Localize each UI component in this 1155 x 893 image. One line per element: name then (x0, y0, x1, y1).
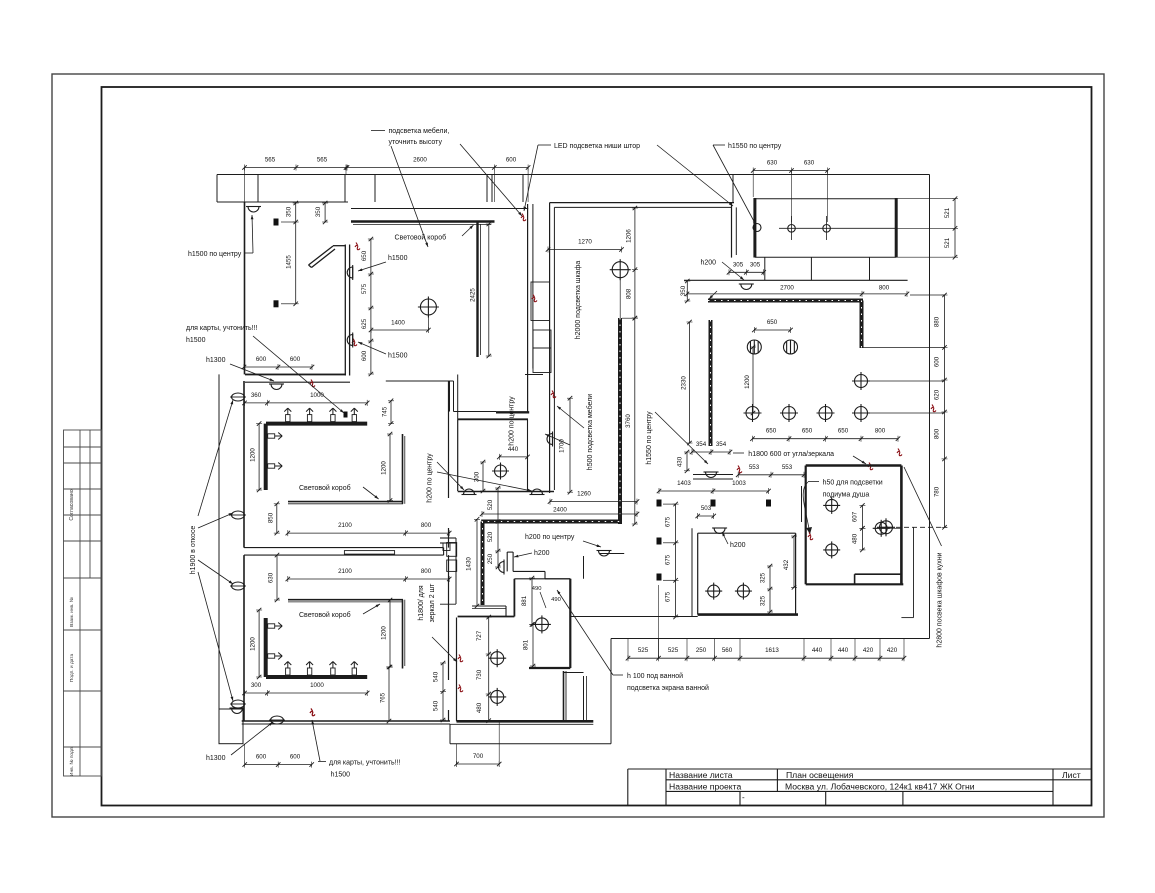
svg-text:1700: 1700 (559, 439, 566, 453)
sheet inner frame (102, 87, 1092, 806)
svg-text:Согласовано: Согласовано (69, 489, 75, 520)
h200 step structure (506, 552, 508, 571)
wardrobe wall double (527, 204, 529, 412)
svg-text:675: 675 (665, 554, 672, 565)
svg-text:2330: 2330 (681, 376, 688, 390)
red mark hall top (551, 391, 556, 398)
wall shower bottom (806, 583, 904, 585)
plan bottom boundary mid (450, 743, 611, 745)
fixture box light2 (823, 225, 831, 233)
dim 305 305 (729, 271, 764, 273)
box top edge (755, 198, 896, 200)
wall bedroom2 right (448, 555, 450, 680)
dim chain living inner (370, 239, 372, 374)
svg-text:2425: 2425 (470, 288, 477, 302)
LED strip end arrow (709, 291, 717, 299)
fixture wc half top (712, 528, 727, 534)
dim 1700 hall (569, 398, 571, 492)
svg-text:650: 650 (802, 428, 813, 435)
svg-text:650: 650 (838, 428, 849, 435)
sliding door (344, 551, 394, 555)
leader h50 (803, 482, 810, 534)
wall corridor v456 (455, 538, 457, 604)
fixture guest bath (492, 463, 509, 480)
wall shower top (806, 464, 902, 467)
svg-text:1200: 1200 (744, 375, 751, 389)
svg-text:800: 800 (421, 522, 432, 529)
svg-text:745: 745 (382, 406, 389, 417)
svg-text:2400: 2400 (553, 507, 567, 514)
fixture bath3 (533, 615, 551, 633)
dim 630 630 (753, 170, 827, 172)
svg-text:2700: 2700 (780, 285, 794, 292)
svg-text:650: 650 (767, 319, 778, 326)
svg-text:h1550 по центру: h1550 по центру (646, 411, 653, 465)
wall bedroom1 right (448, 381, 450, 498)
fixture living half wall2 (347, 333, 352, 348)
dim 650 pair (754, 329, 790, 331)
wardrobe end cap (496, 411, 529, 413)
svg-text:1003: 1003 (732, 480, 746, 487)
svg-text:h1550 по центру: h1550 по центру (728, 143, 782, 150)
svg-text:1613: 1613 (765, 647, 779, 654)
leader h1900 4 (198, 572, 233, 701)
curtain side arrows bed1 (268, 433, 283, 440)
fixture kitchen half (739, 284, 754, 290)
fixture half step (230, 708, 245, 714)
dim 801 bath (532, 624, 534, 666)
dim 1430 hall (476, 519, 478, 606)
spot squares row (657, 500, 662, 507)
svg-text:h50 для подсветки: h50 для подсветки (823, 480, 883, 487)
svg-text:подиума душа: подиума душа (823, 492, 870, 499)
leader зеркал (432, 637, 457, 662)
wall living left (244, 202, 246, 374)
svg-text:h1800/ для: h1800/ для (418, 585, 425, 621)
svg-text:250: 250 (696, 647, 707, 654)
svg-text:553: 553 (782, 464, 793, 471)
red mark bath mirror1 (458, 655, 463, 662)
wall guest bath bottom (458, 491, 554, 493)
svg-text:h1500: h1500 (388, 353, 408, 360)
fixture oval left3 (232, 582, 245, 590)
bathtub screen box (569, 579, 571, 668)
red mark bed1 top (310, 380, 315, 387)
fixture guest half1 (462, 489, 477, 495)
dim chain 521 521 (954, 199, 956, 258)
dim chain bath left (488, 617, 490, 721)
svg-text:1000: 1000 (310, 682, 324, 689)
fixture bath2 (488, 688, 506, 706)
svg-text:650: 650 (766, 428, 777, 435)
dim 1200 bed2 right (389, 600, 391, 667)
step box bottom-left (219, 709, 243, 744)
svg-text:уточнить высоту: уточнить высоту (389, 139, 443, 146)
dim 700 bottom (457, 763, 500, 765)
fixture hall half 2 (704, 472, 719, 478)
svg-text:675: 675 (665, 516, 672, 527)
svg-text:600: 600 (361, 350, 368, 361)
leader h1900 3 (198, 560, 233, 584)
wall kitchen step right (913, 527, 915, 618)
svg-text:1403: 1403 (677, 480, 691, 487)
dim 1200 bed1 left (258, 424, 260, 490)
plan left boundary (218, 374, 220, 709)
dim 1400 (371, 329, 428, 331)
svg-text:1260: 1260 (577, 491, 591, 498)
curtain track bed1 horizontal (266, 422, 367, 426)
wall above tub box (583, 556, 585, 579)
leader подсветка мебели 1 (391, 146, 428, 247)
dim 2330 (689, 322, 691, 443)
dim 503 wc (698, 515, 714, 517)
curtain side arrows bed2 (268, 623, 283, 630)
curtain arrows bed1 (284, 408, 291, 422)
wall guest bath left (457, 419, 459, 491)
svg-text:630: 630 (268, 572, 275, 583)
fixture cross lines (779, 227, 896, 229)
wall bath niche right pair (583, 676, 585, 721)
svg-text:801: 801 (523, 639, 530, 650)
dim 1206-808 vert (634, 208, 636, 318)
dim 360 1000 bed1 (245, 402, 368, 404)
leader h200 rot 1 (437, 462, 464, 490)
svg-text:440: 440 (812, 647, 823, 654)
svg-text:Подп. и дата: Подп. и дата (69, 654, 75, 683)
svg-text:h1500: h1500 (186, 337, 206, 344)
dim row risers (658, 639, 660, 659)
dim 2600 600 (346, 167, 528, 169)
sheet outer border (52, 74, 1104, 817)
svg-text:1270: 1270 (578, 239, 592, 246)
dim 565 565 (245, 167, 348, 169)
leader h1500 left (252, 215, 253, 253)
wall corridor double538 (440, 537, 456, 539)
svg-text:1206: 1206 (626, 229, 633, 243)
svg-text:354: 354 (696, 441, 707, 448)
leader LED left (524, 145, 538, 211)
svg-text:1000: 1000 (310, 392, 324, 399)
curtain track bed2 vertical (264, 618, 268, 677)
svg-text:350: 350 (286, 206, 293, 217)
dim 2100 800 bed2 (288, 578, 449, 580)
svg-text:325: 325 (760, 595, 767, 606)
svg-text:520: 520 (487, 531, 494, 542)
fixture wc2 (735, 583, 752, 600)
fixture kitchen wall (877, 518, 895, 536)
svg-text:h200 по центру: h200 по центру (525, 534, 575, 541)
svg-text:800: 800 (879, 285, 890, 292)
leader h500 (557, 406, 584, 428)
wall shower right (900, 466, 903, 585)
fixture hall half mid (547, 432, 553, 447)
svg-text:600: 600 (290, 356, 301, 363)
leader h2800 (904, 467, 942, 546)
svg-text:Световой короб: Световой короб (299, 484, 351, 492)
svg-text:Лист: Лист (1062, 770, 1081, 780)
svg-text:490: 490 (532, 586, 542, 592)
dim 300 guest (482, 462, 484, 491)
dim 675 column (675, 504, 677, 617)
spot square2 (274, 300, 279, 307)
plan step boundary (610, 639, 612, 744)
svg-text:подсветка мебели,: подсветка мебели, (389, 127, 450, 135)
svg-text:600: 600 (290, 754, 301, 761)
wall partition center thick (344, 245, 346, 376)
svg-text:305: 305 (750, 262, 761, 269)
curtain track bed1 vertical (264, 424, 268, 490)
leader h1550 top (713, 145, 756, 225)
svg-text:h200 по центру: h200 по центру (427, 453, 434, 503)
wall wc bottom thick (698, 613, 798, 616)
wall corridor bottom (571, 616, 698, 618)
svg-text:325: 325 (760, 572, 767, 583)
svg-text:350: 350 (680, 285, 687, 296)
dim 440 guest (499, 456, 527, 458)
leader LED right (657, 145, 733, 206)
leader h200 mid (583, 541, 601, 547)
svg-text:2100: 2100 (338, 568, 352, 575)
svg-text:1200: 1200 (250, 637, 257, 651)
box left wall thick (753, 198, 756, 258)
svg-text:-: - (742, 793, 745, 802)
leader h200 wc (722, 532, 728, 544)
wall corridor left of wc (691, 528, 693, 617)
svg-text:560: 560 (722, 647, 733, 654)
red mark wardrobe (532, 295, 537, 302)
svg-text:575: 575 (361, 283, 368, 294)
fixture dining (610, 259, 631, 280)
wall bath left (456, 618, 458, 722)
door pocket boxes (447, 543, 457, 557)
svg-text:850: 850 (267, 512, 274, 523)
dim 2400 (482, 513, 637, 515)
kitchen LED wall right (860, 301, 864, 349)
svg-text:440: 440 (508, 446, 519, 453)
svg-text:1400: 1400 (391, 320, 405, 327)
fixture oval left1 (232, 393, 245, 401)
red mark bath mirror2 (458, 685, 463, 692)
svg-text:808: 808 (626, 288, 633, 299)
svg-text:h200: h200 (534, 550, 550, 557)
wall under box (684, 279, 908, 281)
red mark h50 (808, 533, 813, 540)
svg-text:h 100 под ванной: h 100 под ванной (627, 672, 683, 680)
red mark kitchen row (931, 405, 936, 412)
svg-text:h2800 посвека шкафов кухни: h2800 посвека шкафов кухни (937, 552, 944, 647)
fixture bath1 (488, 649, 506, 667)
svg-text:Световой короб: Световой короб (299, 611, 351, 619)
wall guest bath right (527, 419, 529, 491)
LED bar A (618, 318, 622, 524)
svg-text:Взам. инв. №: Взам. инв. № (69, 597, 75, 627)
leader to wardrobe fixture (545, 434, 570, 445)
red mark partition top (355, 243, 360, 250)
leader h1300 bottom (231, 722, 273, 755)
svg-text:План освещения: План освещения (786, 770, 854, 780)
svg-text:300: 300 (474, 471, 481, 482)
leader h200 kitchen (722, 262, 744, 280)
svg-text:Название проекта: Название проекта (669, 782, 741, 792)
wall top band piece right (525, 374, 543, 376)
fixture living half wall1 (347, 265, 352, 280)
riser to squares column (657, 585, 659, 658)
svg-text:360: 360 (251, 392, 262, 399)
lightbox living top (351, 220, 495, 222)
dim 520 520 250 chain (497, 488, 499, 567)
dim 1270 (548, 249, 622, 251)
fixture oval bottom (271, 716, 284, 724)
svg-text:525: 525 (668, 647, 679, 654)
svg-text:440: 440 (838, 647, 849, 654)
wall bedroom band top1 (245, 374, 346, 376)
svg-text:625: 625 (361, 318, 368, 329)
svg-text:Москва ул. Лобачевского, 124к1: Москва ул. Лобачевского, 124к1 кв417 ЖК … (785, 782, 975, 792)
svg-text:h1900 в откосе: h1900 в откосе (190, 526, 197, 575)
svg-text:650: 650 (361, 250, 368, 261)
svg-text:490: 490 (551, 597, 561, 603)
niche wall right double (731, 203, 733, 258)
curtain track bed2 horizontal (266, 675, 367, 679)
svg-text:h500 подсветка мебели: h500 подсветка мебели (586, 394, 594, 470)
wall guest bath top (458, 418, 528, 420)
dim 1260 (550, 501, 637, 503)
svg-text:3760: 3760 (625, 414, 632, 428)
wall right boundary (929, 175, 931, 639)
fixture stripe2 (784, 340, 798, 354)
svg-text:для карты, учтонить!!!: для карты, учтонить!!! (329, 760, 401, 767)
wall bedrooms left (243, 381, 245, 548)
kitchen LED strip top (708, 299, 863, 303)
svg-text:1200: 1200 (381, 626, 388, 640)
wall shower left (805, 466, 807, 585)
box bottom edge (755, 256, 896, 258)
fixture guest half2 (530, 489, 545, 495)
dim 2100 800 bed1 (288, 532, 449, 534)
spot square1 (274, 219, 279, 226)
wall bedroom2 bottom (242, 720, 450, 722)
red mark bottom (310, 709, 315, 716)
leader h1900 2 (198, 513, 233, 528)
wall band y382 (245, 381, 350, 383)
svg-text:880: 880 (934, 316, 941, 327)
svg-text:600: 600 (256, 356, 267, 363)
curtain arrows bed2 (284, 662, 291, 676)
wall wc left (697, 533, 699, 614)
wall bath right step (563, 671, 565, 721)
wall wc top (698, 532, 796, 534)
svg-text:h1500 по центру: h1500 по центру (188, 251, 242, 258)
box right wall thick (895, 198, 898, 258)
fixture kitchen right (852, 372, 870, 390)
svg-text:600: 600 (934, 356, 941, 367)
dim 1200 bed2 left (258, 610, 260, 677)
svg-text:Инв. № подл.: Инв. № подл. (69, 746, 75, 776)
ledge near h200 fixture (600, 553, 624, 555)
svg-text:подсветка экрана ванной: подсветка экрана ванной (627, 684, 709, 692)
svg-text:881: 881 (521, 595, 528, 606)
svg-text:для карты, учтонить!!!: для карты, учтонить!!! (186, 325, 258, 332)
svg-text:503: 503 (701, 505, 712, 512)
niche wall left double (549, 203, 551, 493)
wall band joints (216, 175, 218, 203)
leader угла (853, 456, 866, 464)
svg-text:1200: 1200 (381, 461, 388, 475)
svg-text:607: 607 (851, 511, 858, 522)
dim 745 bed1 (390, 401, 392, 424)
leader h1550 rot (655, 412, 708, 464)
svg-text:h200: h200 (701, 260, 717, 267)
box stub mid (810, 257, 812, 280)
sidebar stamp column (64, 430, 102, 776)
leader для карты bottom (312, 720, 320, 761)
red mark partition low (352, 339, 357, 346)
svg-text:780: 780 (934, 486, 941, 497)
svg-text:600: 600 (256, 754, 267, 761)
svg-text:521: 521 (944, 207, 951, 218)
red mark niche1 (521, 214, 526, 221)
svg-text:727: 727 (476, 630, 483, 641)
title block frame (628, 769, 1092, 806)
svg-text:630: 630 (804, 160, 815, 167)
red mark bed2 bottom (310, 709, 315, 716)
svg-text:h1300: h1300 (206, 357, 226, 364)
svg-text:480: 480 (476, 702, 483, 713)
kitchen lower LED horizontal (481, 520, 621, 524)
svg-text:565: 565 (265, 157, 276, 164)
fixture box circle (753, 224, 761, 232)
lightbox bed2 (288, 599, 403, 601)
fixture shower2 (823, 541, 840, 558)
svg-text:354: 354 (716, 441, 727, 448)
wall between bedrooms (244, 547, 444, 549)
svg-text:480: 480 (851, 533, 858, 544)
wall bath bottom thick (457, 720, 594, 723)
leader h1900 1 (198, 400, 233, 516)
dim 881 bath (531, 578, 533, 624)
fixture oval left2 (232, 511, 245, 519)
svg-text:305: 305 (733, 262, 744, 269)
lightbox bed1 (288, 501, 403, 503)
svg-text:h1800 600 от угла/зеркала: h1800 600 от угла/зеркала (748, 451, 834, 458)
svg-text:h200: h200 (730, 542, 746, 549)
dim bottom big row (628, 657, 904, 659)
box stub left (764, 257, 766, 280)
svg-text:800: 800 (875, 428, 886, 435)
svg-text:420: 420 (863, 647, 874, 654)
dim 600 600 mid (244, 366, 312, 368)
svg-text:730: 730 (476, 669, 483, 680)
fixture shower1 (823, 497, 840, 514)
bench diagonal (309, 246, 334, 265)
svg-text:600: 600 (506, 157, 517, 164)
fixture shower3 (873, 520, 890, 537)
dim 2700-800 line (687, 293, 907, 295)
dim 350 350 column (295, 203, 297, 304)
wall top outer (217, 174, 930, 176)
svg-text:h1500: h1500 (388, 255, 408, 262)
red mark угла (737, 466, 742, 473)
dim 480 shower (861, 528, 863, 550)
svg-text:800: 800 (934, 428, 941, 439)
lightbox living right (476, 222, 478, 358)
svg-text:1200: 1200 (250, 448, 257, 462)
wall step v450 (449, 724, 451, 744)
wall wc right (795, 533, 797, 614)
wall living bottom-left (245, 373, 346, 375)
dim 2425 (488, 224, 490, 356)
box stub right (869, 257, 871, 280)
